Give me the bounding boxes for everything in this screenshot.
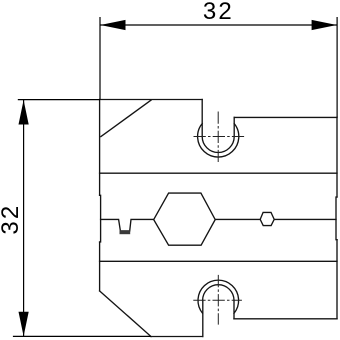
top dimension arrow left [100,20,125,30]
top slot right wall [233,117,235,136]
right edge upper [336,117,338,197]
big hexagon crimp opening [154,193,216,245]
top-left chamfer face line [101,100,151,137]
notch floor filled block [120,230,131,234]
svg-text:32: 32 [0,204,24,235]
left dimension line [23,100,25,336]
left edge lower [99,242,101,291]
top hole horizontal centerline [194,136,245,138]
wire segment small hex to right edge [274,218,336,220]
bottom hole outer counterbore arc [198,280,239,313]
horizontal body line upper [100,172,337,174]
top dimension line [101,24,337,26]
top dimension extension line left [99,17,101,100]
left dimension arrow up [19,100,29,125]
bottom-left chamfer cut [100,291,151,337]
right edge lower [336,240,338,319]
left dimension extension line top [18,99,100,101]
bottom slot left wall [202,300,204,336]
top hole inner circle (slot bottom radius) [202,137,234,153]
top right shoulder edge [234,116,337,118]
crimp profile line with locator notch [101,219,154,231]
bottom right edge [234,318,337,320]
part top edge [100,99,203,101]
small hexagon [260,212,274,225]
wire segment between hexagons [215,218,260,220]
top hole vertical centerline [217,112,219,163]
bottom slot right wall [233,300,235,318]
bottom edge left [151,336,203,338]
left dimension arrow down [19,312,29,336]
top hole outer counterbore arc [198,124,239,158]
bottom hole inner circle (slot top radius) [203,285,234,301]
horizontal body line lower [100,260,337,262]
top slot left wall [201,100,203,137]
top dimension arrow right [312,20,337,30]
bottom hole vertical centerline [217,275,219,325]
top dimension extension line right [336,17,338,117]
bottom hole horizontal centerline [193,299,242,301]
left edge upper [99,100,101,196]
svg-text:32: 32 [203,0,234,25]
right edge inset band [336,197,337,240]
left dimension extension line bottom [13,335,151,337]
left edge inset band [100,195,101,242]
